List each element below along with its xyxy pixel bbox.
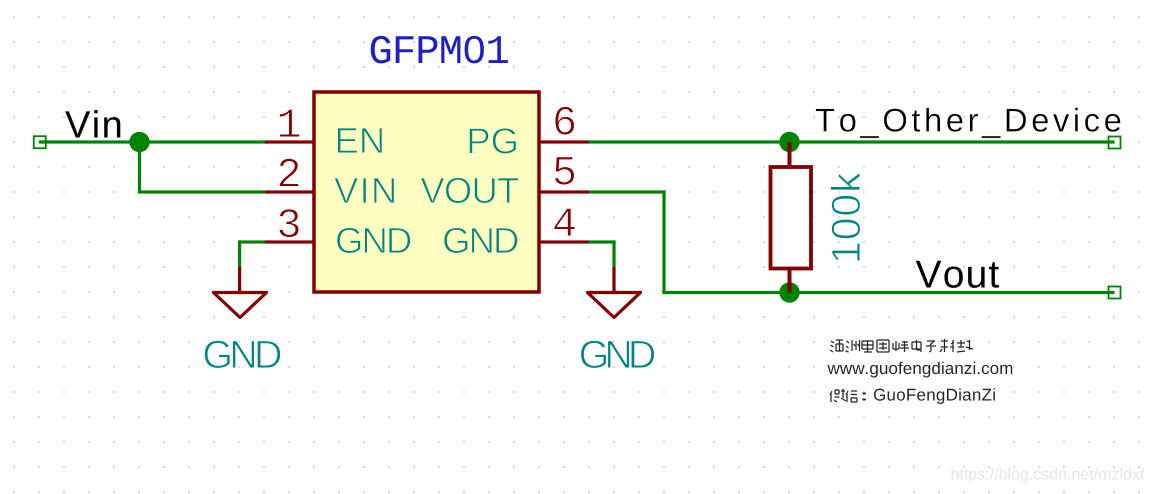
- pin name PG: [469, 128, 516, 154]
- node To_Other_Device connector square: [1109, 137, 1121, 149]
- pin name GND left: [337, 228, 411, 254]
- watermark csdn url: [952, 468, 1145, 483]
- wire pin 6 to To_Other_Device: [589, 140, 1115, 143]
- wire Vin to pin 1: [39, 140, 265, 143]
- watermark wechat id: [874, 388, 995, 404]
- wire bottom Vout rail: [662, 291, 1114, 294]
- wire pin 3 to gnd corner: [238, 240, 265, 243]
- pin 6 (PG): [539, 140, 589, 143]
- node Vin label: [65, 110, 120, 138]
- pin 1 (EN): [264, 140, 314, 143]
- ground symbol left lead: [238, 267, 241, 293]
- resistor 100k body: [771, 167, 812, 269]
- resistor value 100k: [830, 172, 860, 261]
- pin name VOUT: [421, 178, 519, 204]
- pin number 2: [279, 158, 298, 186]
- wire down from pin 5: [662, 190, 665, 294]
- junction at Vin node: [129, 132, 149, 152]
- wire to pin 2: [138, 190, 265, 193]
- node To_Other_Device label: [816, 108, 1121, 139]
- wire pin 5 out: [589, 190, 666, 193]
- ground symbol right lead: [612, 267, 615, 293]
- ground symbol right triangle: [588, 293, 641, 318]
- watermark company name (CJK strokes): [830, 339, 973, 352]
- pin name EN: [338, 128, 383, 153]
- wire down from pin 3: [238, 240, 241, 267]
- pin number 4: [554, 208, 575, 236]
- wire down from pin 4: [612, 240, 615, 267]
- node Vin connector square: [34, 136, 46, 148]
- IC U1 body GFPM01: [314, 92, 539, 292]
- resistor 100k lead top: [788, 142, 792, 167]
- pin number 6: [555, 106, 574, 134]
- watermark weixin (CJK strokes): [830, 389, 865, 402]
- wire pin 4 to gnd corner: [589, 240, 616, 243]
- pin 3 (GND): [264, 240, 314, 243]
- pin number 1: [279, 109, 299, 137]
- node Vout connector square: [1109, 287, 1121, 299]
- pin 2 (VIN): [264, 190, 314, 193]
- IC value label GFPM01: [371, 36, 508, 64]
- pin number 5: [555, 157, 575, 185]
- wire junction drop to pin 2 row: [138, 142, 141, 192]
- resistor 100k lead bottom: [788, 269, 792, 293]
- ground symbol left triangle: [214, 293, 267, 318]
- ground label left GND: [204, 340, 280, 368]
- pin number 3: [279, 209, 299, 238]
- pin 5 (VOUT): [539, 190, 589, 193]
- pin 4 (GND): [539, 240, 589, 243]
- pin name GND right: [444, 228, 518, 254]
- ground label right GND: [581, 340, 655, 368]
- pin name VIN: [334, 178, 394, 203]
- node Vout label: [916, 261, 999, 288]
- junction at resistor top: [779, 132, 799, 152]
- watermark url www.guofengdianzi.com: [828, 362, 1013, 378]
- junction at resistor bottom: [779, 282, 799, 302]
